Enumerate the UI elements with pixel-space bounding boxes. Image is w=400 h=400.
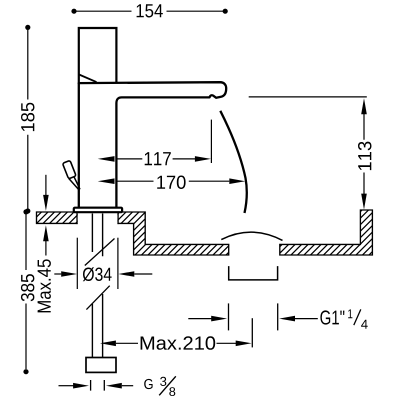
dimension G3/8 ticks [91,380,105,391]
dimension 113 line [363,114,365,203]
dimension 117 left arrow [98,156,115,162]
break slash upper [85,239,115,266]
dimension G1 1/4 label [354,309,361,325]
dimension 113 extension line [249,96,367,98]
lever stem [69,177,80,191]
label Max.45 [38,259,51,312]
label 113 [358,142,372,171]
dimension G1 1/4 left line and arrow [188,318,211,320]
dimension G1 1/4 right arrow and line [279,316,295,322]
supply pipe upper segment [92,214,102,257]
dimension 170 right arrow [229,178,245,184]
countertop hole for faucet shank [78,211,118,226]
label 185 [21,103,35,131]
drain centre line [251,318,253,347]
drain outlet U [229,266,278,280]
hole edge right [117,211,119,224]
label G1 quarter denominator [361,320,368,329]
label G38 numerator [160,377,166,386]
dimension Max.210 right line and arrow [217,342,237,344]
label G1 inch [320,310,344,324]
hole edge left [76,211,78,224]
dimension Max.45 upper line [45,175,47,196]
dimension G1 1/4 extension line right [277,303,279,330]
dimension 170 line [116,180,229,182]
dimension Max.45 down arrow [43,195,49,211]
countertop right section (hatched) [280,210,373,255]
dimension Max.45 lower line [45,241,47,256]
dimension Max.210 left arrow and line [100,341,116,347]
label 154 [137,4,163,17]
dimension 154 line [74,10,225,12]
dimension Max.45 up arrow [43,225,49,241]
label G1 quarter numerator [348,309,352,318]
basin waste dome arc [221,232,282,240]
dimension 113 bottom arrow [361,194,367,210]
dimension 117 right arrow [195,156,211,162]
dimension G1 1/4 extension line left [228,303,230,330]
dimension 385 line [25,215,27,370]
dimension 113 top arrow [361,98,367,114]
dimension Ø34 extension line left with break slash [76,238,78,289]
lever knob [62,160,76,179]
dimension 154 end dots [71,9,76,14]
water stream [220,111,247,213]
faucet body and spout outline [79,82,226,208]
cartridge chamfer line [79,75,97,83]
label G38 denominator [169,387,175,396]
dimension 117 extension line [210,120,212,163]
dimension 185 end dots [25,25,30,30]
label 385 [21,274,35,301]
label 117 [145,152,171,165]
dimension 385 end dots [23,209,28,214]
cartridge block on top [79,28,117,84]
label G38 G [144,379,152,389]
label 170 [157,176,185,190]
dimension 117 line [116,158,195,160]
label diameter 34 [83,267,112,281]
dimension Ø34 extension line right [117,238,119,289]
dimension 170 left arrow [98,178,115,184]
label Max.210 [141,336,216,350]
dimension Ø34 right arrow and line [134,273,152,275]
dimension G3/8 right arrow and line [106,383,122,389]
dimension 185 line [27,30,29,209]
break slash lower [86,286,109,310]
base flange [74,208,122,213]
dimension Ø34 left arrow and line [54,273,61,275]
countertop left section with basin wall (hatched) [37,212,229,255]
supply pipe lower segment [92,294,102,358]
G3/8 connector block [86,358,116,373]
dimension G3/8 left line and arrow [59,385,74,387]
dimension G3/8 label [159,376,176,395]
